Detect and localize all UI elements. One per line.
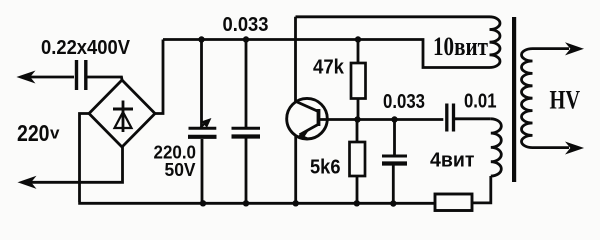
node: ground/C4 — [390, 200, 396, 206]
node: rail/C2 — [198, 36, 204, 42]
AC input terminal arrow (bottom) — [19, 177, 35, 188]
electrolytic C2 bottom plate — [188, 135, 217, 139]
electrolytic C2 bottom lead — [201, 139, 204, 203]
wire C1 to bridge top vertex — [88, 77, 123, 80]
electrolytic C2 220/50V top lead — [200, 40, 203, 127]
wire bridge + output to top rail — [155, 40, 163, 114]
bridge diode symbol — [113, 101, 133, 133]
node: ground/emitter — [293, 200, 299, 206]
ceramic C3 0.033 top lead — [245, 40, 248, 127]
resistor R3 body — [435, 194, 472, 211]
bridge rectifier diamond — [89, 80, 155, 147]
svg-text:0.01: 0.01 — [464, 90, 497, 113]
top rail (+DC bus) — [163, 40, 490, 68]
transformer core — [512, 17, 516, 182]
svg-text:HV: HV — [550, 86, 581, 115]
Q1 emitter lead down — [294, 137, 297, 204]
transistor Q1 body circle — [287, 98, 328, 139]
HV output bottom wire — [533, 146, 570, 149]
svg-text:50V: 50V — [165, 160, 196, 180]
wire C5 to feedback winding — [454, 117, 491, 120]
wire bridge - output down to bottom rail — [80, 114, 90, 203]
collector loop top line — [296, 15, 490, 18]
AC input terminal arrow (top) — [18, 72, 74, 83]
node: ground/R2 — [354, 200, 360, 206]
collector lead down to transistor — [294, 17, 297, 102]
bottom rail — [78, 202, 436, 205]
feedback winding bottom lead to R3 — [472, 176, 491, 203]
capacitor C4 0.033 top lead — [393, 120, 396, 155]
HV secondary winding — [522, 49, 533, 148]
node: rail/R1 — [355, 36, 361, 42]
wire bridge AC bottom vertex to lower input — [31, 147, 123, 182]
base wire to divider node — [320, 118, 444, 121]
HV output top arrow — [567, 43, 583, 54]
resistor R2 5k6 body — [350, 142, 366, 176]
node: rail/C3 — [243, 36, 249, 42]
svg-text:0.033: 0.033 — [223, 13, 269, 36]
electrolytic C2 plus mark — [201, 122, 207, 128]
HV output bottom arrow — [567, 143, 583, 154]
node: base/C4 — [391, 116, 397, 122]
svg-text:47k: 47k — [313, 56, 345, 79]
C3 bottom lead — [245, 139, 248, 204]
C4 bottom lead — [392, 166, 395, 204]
C4 top plate — [382, 155, 407, 158]
Q1 emitter stroke — [300, 125, 319, 135]
svg-text:0.22x400V: 0.22x400V — [41, 37, 131, 59]
transformer feedback winding 4вит — [491, 119, 502, 176]
resistor R2 5k6 leads — [356, 120, 359, 204]
svg-text:220: 220 — [17, 120, 50, 146]
svg-text:v: v — [50, 124, 60, 143]
Q1 base bar — [317, 109, 321, 126]
svg-text:5k6: 5k6 — [310, 156, 341, 179]
transformer primary winding 10вит — [490, 17, 501, 68]
node: base/R1R2 — [354, 116, 360, 122]
node: ground/C2 — [200, 200, 206, 206]
node: ground/C3 — [243, 200, 249, 206]
Q1 emitter arrowhead — [297, 129, 310, 139]
svg-text:4вит: 4вит — [430, 150, 475, 172]
HV output top wire — [533, 47, 570, 50]
svg-text:0.033: 0.033 — [383, 90, 425, 113]
C4 bottom plate — [382, 161, 407, 165]
capacitor C1 0.22x400V plates — [77, 60, 86, 90]
electrolytic C2 top plate — [189, 127, 217, 130]
junction dots — [198, 36, 397, 206]
capacitor C5 0.01 plates — [447, 104, 454, 132]
C3 bottom plate — [232, 134, 261, 138]
C3 top plate — [232, 127, 261, 130]
resistor R1 47k body — [351, 63, 366, 99]
Q1 collector stroke — [296, 102, 318, 112]
resistor R1 47k leads — [357, 40, 360, 120]
svg-text:10вит: 10вит — [433, 32, 488, 61]
label 220v — [17, 120, 60, 146]
